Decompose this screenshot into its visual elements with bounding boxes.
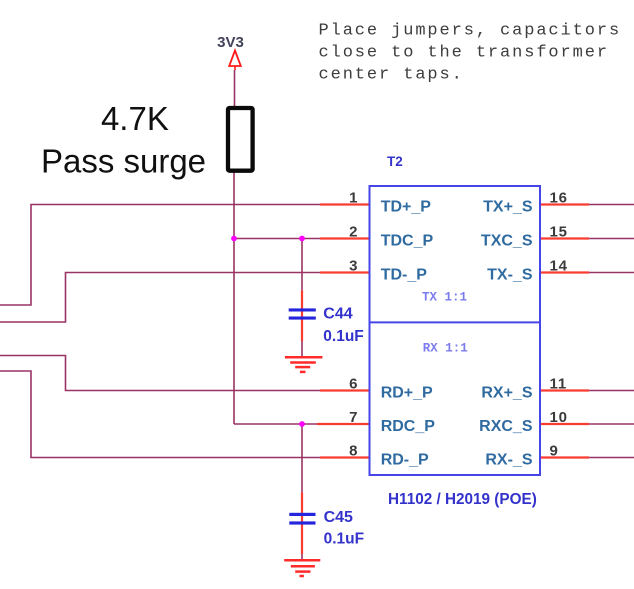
svg-text:Place jumpers, capacitors: Place jumpers, capacitors xyxy=(319,22,622,41)
wire TX+_S to right edge xyxy=(589,204,634,206)
svg-text:RDC_P: RDC_P xyxy=(381,418,436,435)
power symbol 3V3 xyxy=(217,34,244,70)
svg-text:4.7K: 4.7K xyxy=(101,100,169,137)
svg-text:15: 15 xyxy=(550,224,568,241)
pin 6 wire stub xyxy=(320,389,370,391)
wire net RD-_P from left edge xyxy=(0,371,320,458)
svg-text:RD+_P: RD+_P xyxy=(381,385,433,402)
capacitor C45 xyxy=(289,492,315,554)
svg-text:RX+_S: RX+_S xyxy=(481,385,532,402)
annotation 4.7K Pass surge xyxy=(41,100,206,180)
svg-text:TXC_S: TXC_S xyxy=(481,233,533,250)
svg-text:H1102 / H2019 (POE): H1102 / H2019 (POE) xyxy=(388,491,537,508)
wire C45 to ground xyxy=(301,552,303,560)
pin 10 wire stub xyxy=(540,423,589,425)
svg-text:10: 10 xyxy=(550,409,568,426)
wire net TDC_P horizontal xyxy=(234,238,320,240)
pin 3 wire stub xyxy=(320,271,370,273)
svg-text:7: 7 xyxy=(349,409,357,426)
wire net TD-_P from left edge xyxy=(0,273,320,323)
junction dot at TDC trunk xyxy=(231,236,237,242)
svg-text:C45: C45 xyxy=(324,509,353,526)
svg-text:TX+_S: TX+_S xyxy=(483,199,533,216)
svg-text:TD+_P: TD+_P xyxy=(381,199,432,216)
svg-text:14: 14 xyxy=(550,258,568,275)
svg-text:Pass surge: Pass surge xyxy=(41,143,206,180)
svg-text:16: 16 xyxy=(550,190,568,207)
pin 1 wire stub xyxy=(320,203,370,205)
pin 16 wire stub xyxy=(540,203,589,205)
ground GND2 xyxy=(284,560,320,576)
svg-text:RX-_S: RX-_S xyxy=(485,452,532,469)
svg-text:3V3: 3V3 xyxy=(217,34,244,51)
svg-text:0.1uF: 0.1uF xyxy=(324,531,364,548)
svg-text:1: 1 xyxy=(349,190,357,207)
wire RXC_S to right edge xyxy=(589,423,634,425)
svg-text:9: 9 xyxy=(550,443,558,460)
wire resistor to RDC row (vertical trunk) xyxy=(233,106,235,424)
pin 11 wire stub xyxy=(540,389,589,391)
svg-text:center taps.: center taps. xyxy=(319,66,464,85)
note: placement instruction text xyxy=(319,22,622,85)
svg-text:RX 1:1: RX 1:1 xyxy=(423,341,468,355)
wire RX+_S to right edge xyxy=(589,390,634,392)
wire TX-_S to right edge xyxy=(589,272,634,274)
svg-text:TX-_S: TX-_S xyxy=(487,267,533,284)
svg-text:8: 8 xyxy=(349,443,357,460)
svg-text:TX 1:1: TX 1:1 xyxy=(422,291,467,305)
wire net TD+_P from left edge xyxy=(0,205,320,306)
svg-text:2: 2 xyxy=(349,224,357,241)
pin 8 wire stub xyxy=(320,456,370,458)
svg-text:3: 3 xyxy=(349,258,357,275)
transformer T2 body xyxy=(370,186,541,475)
junction dot at C45 tap xyxy=(299,421,305,427)
svg-text:TDC_P: TDC_P xyxy=(381,233,434,250)
pin 14 wire stub xyxy=(540,271,589,273)
svg-text:RD-_P: RD-_P xyxy=(381,452,429,469)
svg-text:TD-_P: TD-_P xyxy=(381,267,428,284)
transformer winding divider xyxy=(370,321,541,323)
wire C44 to ground xyxy=(301,339,303,357)
wire TXC_S to right edge xyxy=(589,238,634,240)
svg-text:RXC_S: RXC_S xyxy=(479,418,533,435)
wire C45 branch down xyxy=(301,424,303,492)
svg-text:11: 11 xyxy=(550,376,567,393)
capacitor C44 xyxy=(289,290,316,341)
svg-text:6: 6 xyxy=(349,376,357,393)
junction dot at C44 tap xyxy=(299,236,305,242)
ground GND1 xyxy=(285,357,323,372)
pin 2 wire stub xyxy=(320,237,370,239)
resistor R1 4.7K xyxy=(228,108,253,171)
wire C44 branch down xyxy=(301,239,303,291)
svg-text:close to the transformer: close to the transformer xyxy=(319,44,609,63)
wire net RD+_P from left edge xyxy=(0,356,320,391)
wire RX-_S to right edge xyxy=(589,457,634,459)
svg-text:T2: T2 xyxy=(387,154,403,169)
svg-text:0.1uF: 0.1uF xyxy=(323,328,363,345)
svg-text:C44: C44 xyxy=(323,306,352,323)
pin 7 wire stub xyxy=(317,423,370,425)
wire 3V3 to resistor xyxy=(234,70,236,106)
pin 9 wire stub xyxy=(540,456,589,458)
wire net RDC_P horizontal xyxy=(234,423,320,425)
pin 15 wire stub xyxy=(540,237,589,239)
